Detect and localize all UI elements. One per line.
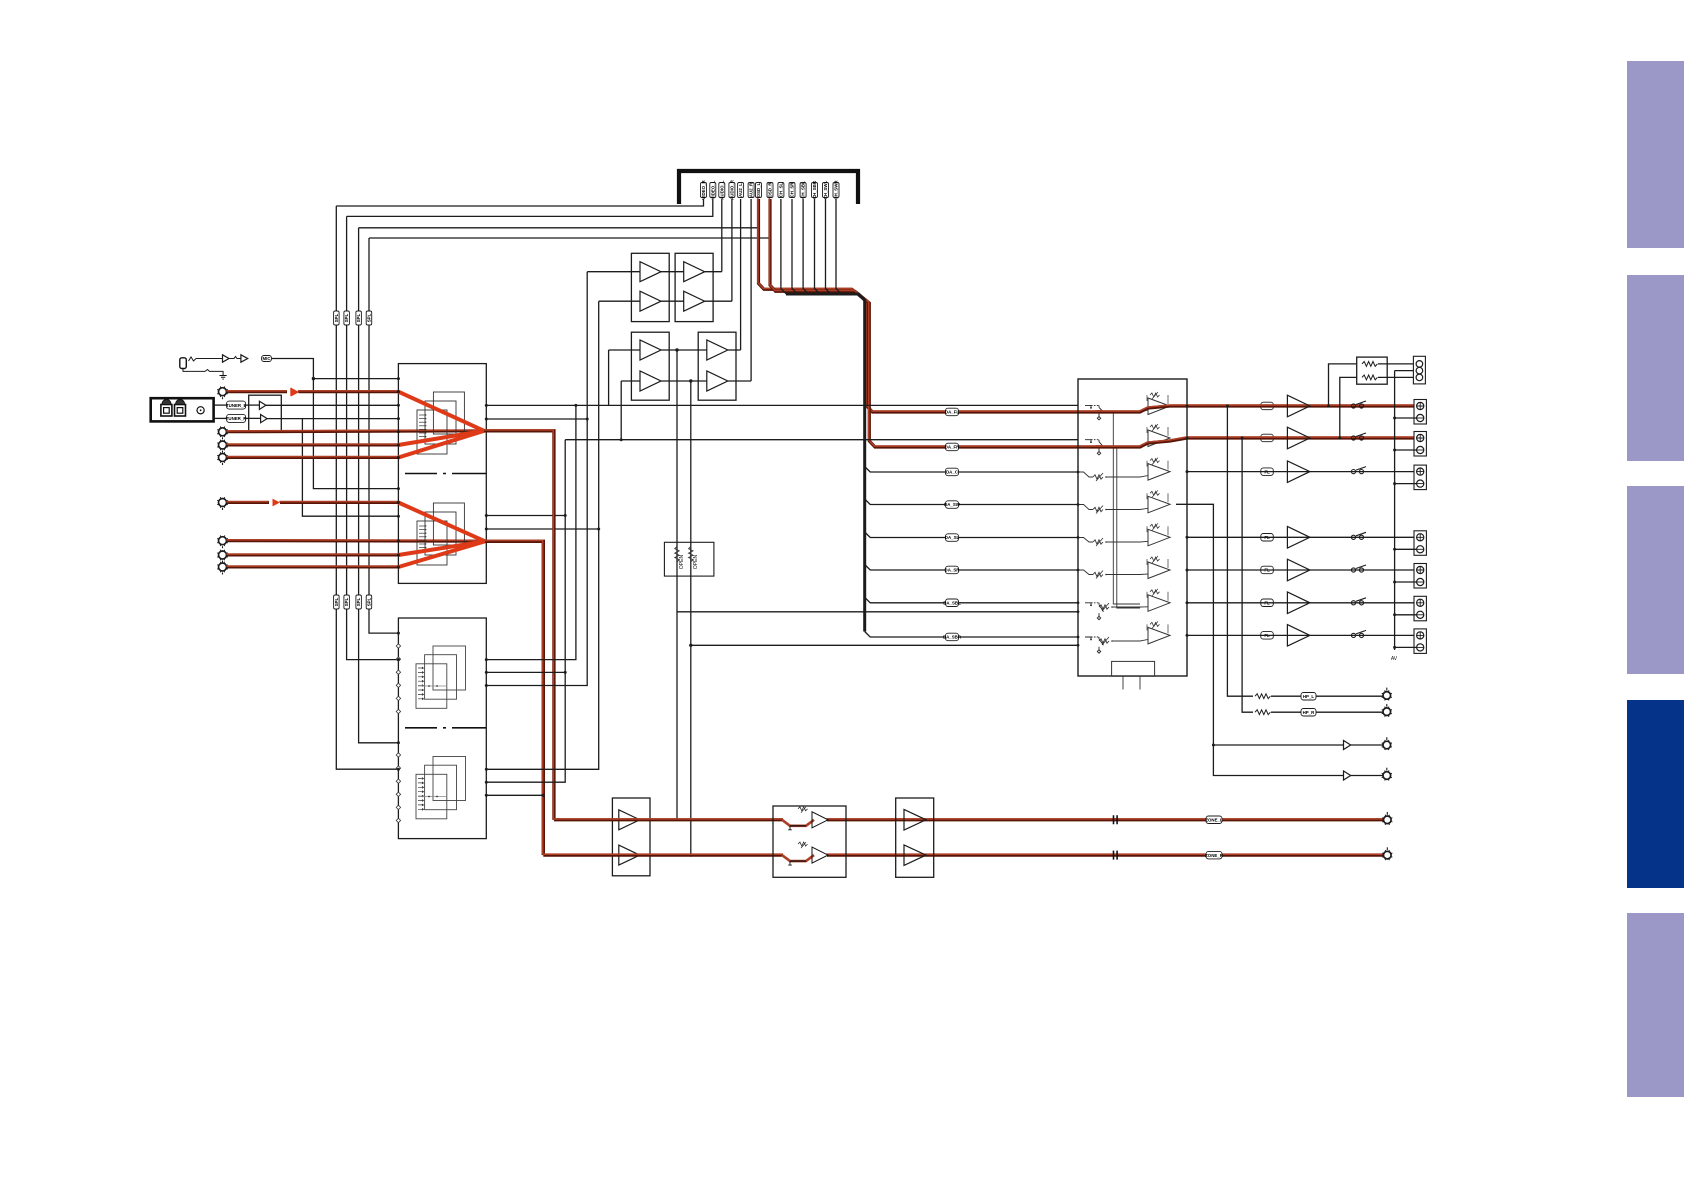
- volume input step y472: [1078, 472, 1093, 477]
- volume ch8 opamp: [1147, 621, 1170, 644]
- wire volume FR red: [1089, 437, 1187, 447]
- zone buffer 2: [619, 845, 640, 865]
- IC2 divider: [405, 727, 486, 729]
- svg-text:ZONE_L: ZONE_L: [1205, 818, 1223, 823]
- connector zone R: [1382, 847, 1392, 860]
- wire output row 2: [1186, 436, 1414, 440]
- wire IC2 out 672: [486, 671, 565, 673]
- connector AV2 audio: [217, 427, 228, 441]
- svg-text:OSD_R: OSD_R: [768, 182, 773, 198]
- IC1 pin y488: [397, 487, 400, 490]
- speaker relay 2: [1351, 433, 1366, 440]
- net label DA_SR: [945, 566, 961, 574]
- wire channel feed y570: [865, 565, 1078, 571]
- IC2 out pin y782: [485, 781, 488, 784]
- wire zone2 run: [543, 853, 783, 857]
- zone out buffer 2: [904, 845, 926, 866]
- wire channel feed SBR: [865, 632, 1078, 638]
- dsp core 1 midline: [418, 685, 446, 687]
- wire C2 in: [621, 380, 640, 382]
- junction zone branch 2: [689, 644, 692, 647]
- wire output row 4: [1187, 536, 1414, 538]
- svg-text:OPEN: OPEN: [693, 555, 699, 570]
- speaker terminal pair 6: [1414, 596, 1426, 621]
- volume ch3 link: [1106, 476, 1148, 477]
- volume ch4 fader: [1093, 506, 1107, 514]
- mic buffer 1: [223, 355, 230, 362]
- svg-text:SPL: SPL: [334, 313, 339, 322]
- IC1 input selector: [398, 364, 486, 584]
- svg-text:VIDEO_L: VIDEO_L: [710, 180, 715, 199]
- speaker terminal pair 7: [1414, 629, 1426, 654]
- volume pin y570: [1077, 569, 1080, 572]
- junction riser d: [597, 528, 600, 531]
- junction FRd: [485, 418, 488, 421]
- IC2 in pin y769: [397, 768, 400, 771]
- wire C1-D1: [661, 349, 707, 351]
- red fan group1 c: [398, 431, 484, 458]
- wire rec mid: [1395, 370, 1416, 372]
- wire hp R drop: [1242, 438, 1253, 712]
- wire AV5 in: [226, 500, 269, 504]
- junction mic node: [312, 377, 315, 380]
- wire digital net vertical: [781, 199, 787, 294]
- dsp core 2 pins: [418, 778, 424, 811]
- row label 3: [1261, 468, 1274, 476]
- IC1 divider: [405, 473, 486, 475]
- wire zone feed 2: [690, 381, 692, 855]
- svg-text:SPL: SPL: [356, 313, 361, 322]
- wire mic interstage: [229, 357, 241, 359]
- power amp 4: [1287, 527, 1310, 549]
- volume ch7 switch: [1085, 603, 1104, 620]
- mic buffer 2: [241, 355, 248, 362]
- wire AV8 in: [226, 565, 398, 569]
- red fan group2: [398, 503, 485, 542]
- wire net OSD_R branch: [369, 237, 770, 239]
- side tab 2: [1627, 275, 1684, 461]
- wire OSD_L red vertical: [758, 198, 1090, 412]
- net label CH_SR: [789, 182, 795, 198]
- wire net VIDEO_L vertical: [347, 199, 713, 216]
- bus label upper 2: [344, 311, 350, 325]
- speaker terminal pair 3: [1414, 465, 1426, 490]
- wire digital net vertical: [826, 199, 832, 294]
- junction zone tap 1: [675, 348, 678, 351]
- IC2 in pin y742: [397, 741, 400, 744]
- junction sw drop: [1212, 744, 1215, 747]
- volume ch6 link: [1106, 573, 1148, 576]
- dsp core 1 mid: [425, 655, 457, 700]
- svg-text:OSD_L: OSD_L: [756, 182, 761, 197]
- speaker relay 3: [1351, 467, 1366, 474]
- wire mic to group2: [313, 379, 398, 489]
- wire AV3 in: [226, 443, 398, 447]
- IC1 pin y457: [397, 456, 400, 459]
- power amp 3: [1287, 461, 1310, 483]
- red fan group1 b: [398, 431, 484, 445]
- wire C2-D2: [661, 380, 707, 382]
- net label MIC: [262, 356, 272, 362]
- wire output row 1: [1186, 404, 1414, 408]
- buffer B1: [684, 262, 705, 282]
- volume ch7 link: [1112, 606, 1148, 608]
- row label 1: [1261, 402, 1274, 410]
- volume pin y602: [1077, 601, 1080, 604]
- resistor OPEN 2: [689, 547, 693, 562]
- selector A stack outer: [433, 392, 464, 434]
- svg-text:AU2_L: AU2_L: [738, 183, 743, 197]
- IC2 out pin y685: [485, 684, 488, 687]
- wire hp R c: [1316, 711, 1383, 713]
- wire riser d: [486, 301, 598, 769]
- volume mute stubs: [1123, 676, 1140, 689]
- svg-text:DA_FL: DA_FL: [945, 410, 959, 415]
- net label AUDIO_R: [729, 179, 735, 200]
- wire net OSD_L branch: [359, 227, 759, 229]
- net label DA_C: [946, 468, 959, 476]
- output pin 6: [1186, 601, 1189, 604]
- IC1 pin y445: [397, 444, 400, 447]
- connector phones L: [1382, 688, 1392, 701]
- zone volume block: [773, 806, 846, 877]
- wire net VIDEO_R vertical: [336, 199, 703, 206]
- svg-text:AUDIO_L: AUDIO_L: [719, 180, 724, 200]
- buffer C2: [640, 371, 661, 391]
- connector phones R: [1382, 704, 1392, 717]
- line buffer SW2: [1344, 771, 1351, 780]
- buffer C1: [640, 340, 661, 360]
- IC1 pin y555: [397, 554, 400, 557]
- wire terminal return 3: [1395, 483, 1417, 485]
- wire sw drop: [1176, 504, 1344, 775]
- dsp core 2 midline: [418, 796, 446, 798]
- wire net AUDIO_R vertical: [731, 199, 733, 301]
- wire digital net vertical: [792, 199, 798, 294]
- net label TUNER_R: [226, 414, 248, 422]
- dock port 2: [175, 400, 186, 417]
- svg-text:DA_SBL: DA_SBL: [943, 601, 961, 606]
- speaker relay 5: [1351, 565, 1366, 572]
- net label VIDEO_L: [710, 180, 716, 199]
- wire IC1 out FRd: [486, 418, 587, 420]
- junction 795: [542, 794, 545, 797]
- volume input step y570: [1078, 570, 1093, 575]
- dsp core 1 outer: [433, 646, 466, 690]
- rec out resistor box: [1357, 357, 1388, 384]
- wire AV1 in: [226, 389, 287, 393]
- selector B stack front: [417, 521, 447, 565]
- speaker terminal pair 5: [1414, 564, 1426, 589]
- wire IC2 out 795: [486, 794, 543, 796]
- volume ch8 fader: [1099, 637, 1113, 645]
- speaker relay 7: [1351, 630, 1366, 637]
- selector B stack mid: [425, 512, 456, 555]
- svg-text:SPL: SPL: [344, 313, 349, 322]
- zone volume 2 attenuator: [782, 842, 828, 865]
- mic jack: [180, 358, 187, 369]
- wire selector1 out: [483, 430, 554, 820]
- zone volume 1 attenuator: [782, 807, 828, 830]
- volume pin y504: [1077, 503, 1080, 506]
- connector AV7 audio: [217, 550, 228, 564]
- zone out buffer 1: [904, 810, 926, 831]
- capacitor zone1: [1114, 815, 1118, 824]
- wire digital net vertical: [836, 199, 842, 294]
- wire left bus vertical 3: [359, 228, 399, 743]
- volume ch2 switch: [1085, 440, 1104, 455]
- wire riser e: [608, 350, 610, 405]
- bus label lower 3: [356, 595, 362, 609]
- wire speakers rail: [1394, 371, 1396, 650]
- wire AV7 in: [226, 553, 398, 557]
- wire terminal return 5: [1395, 581, 1417, 583]
- svg-text:DA_FR: DA_FR: [945, 445, 960, 450]
- volume ch3 opamp: [1147, 458, 1170, 481]
- volume ch5 fader: [1093, 538, 1107, 546]
- svg-text:CH_SWR: CH_SWR: [834, 180, 839, 200]
- buffer block C: [631, 332, 669, 400]
- rec connector block: [1413, 356, 1425, 384]
- IC2 in pin y633: [397, 632, 400, 635]
- net label CH_SL: [778, 182, 784, 197]
- buffer block D: [698, 332, 736, 400]
- wire IC1 out g2a: [486, 515, 565, 517]
- selector A stack pins: [419, 414, 426, 441]
- connector AV5 audio: [217, 497, 228, 511]
- junction FL tap: [1327, 405, 1330, 408]
- wire mic output: [272, 359, 399, 379]
- zone buffer block: [612, 798, 650, 876]
- svg-text:CH_SBL: CH_SBL: [801, 181, 806, 199]
- wire tuner L b: [245, 404, 260, 406]
- red fan group2 c: [398, 541, 485, 567]
- wire B1 out: [705, 271, 722, 273]
- wire riser b: [486, 405, 576, 659]
- volume input step y537: [1078, 538, 1093, 543]
- net label DA_FL: [945, 408, 959, 416]
- junction riser a: [564, 514, 567, 517]
- bus bracket: [679, 171, 858, 204]
- volume ch1 switch: [1085, 405, 1104, 420]
- junction FLd: [485, 404, 488, 407]
- tuner buffer L: [259, 401, 266, 409]
- svg-text:MIC: MIC: [262, 356, 271, 361]
- row label 4: [1261, 534, 1274, 542]
- wire tuner R out: [267, 418, 398, 420]
- volume ch6 fader: [1093, 571, 1107, 579]
- wire C1 in: [609, 349, 640, 351]
- volume pin y537: [1077, 536, 1080, 539]
- bus label lower 2: [344, 595, 350, 609]
- wire net AU2_R vertical: [750, 199, 752, 381]
- wire tuner R branch: [302, 419, 398, 517]
- wire sw row 2 b: [1351, 775, 1383, 777]
- svg-text:ZONE_R: ZONE_R: [1205, 853, 1224, 858]
- connector AV1 audio: [217, 386, 228, 400]
- IC1 pin y540: [397, 539, 400, 542]
- wire zone1 run: [553, 817, 783, 821]
- volume ch1 opamp: [1147, 392, 1170, 415]
- volume ch8 link: [1112, 639, 1148, 641]
- output pin 3: [1186, 470, 1189, 473]
- resistor rec R: [1362, 375, 1377, 380]
- IC1 pin y378: [397, 377, 400, 380]
- wire B2 out: [705, 300, 732, 302]
- connector AV4 audio: [217, 452, 228, 466]
- junction riser b: [574, 404, 577, 407]
- wire left bus vertical 1: [336, 206, 398, 769]
- junction rail 2: [1393, 449, 1396, 452]
- svg-text:SPL: SPL: [367, 313, 372, 322]
- svg-text:DA_SR: DA_SR: [945, 568, 961, 573]
- row label 5: [1261, 566, 1274, 574]
- volume ch7 fader: [1099, 603, 1113, 611]
- resistor rec L: [1362, 362, 1377, 367]
- wire A2 in: [599, 300, 640, 302]
- net label DA_SL: [945, 534, 960, 542]
- wire tuner L: [214, 404, 228, 406]
- wire IC1 out FLd: [486, 404, 1078, 406]
- wire D1 out: [728, 349, 741, 351]
- wire AV4 in: [226, 455, 398, 459]
- wire digital net vertical: [815, 199, 821, 294]
- wire riser f: [620, 381, 622, 440]
- junction g2b: [485, 528, 488, 531]
- junction FR tap: [1338, 437, 1341, 440]
- IC2 DSP: [398, 618, 486, 839]
- volume pin y472: [1077, 471, 1080, 474]
- speaker terminal pair 2: [1414, 432, 1426, 457]
- red fan group1: [398, 392, 484, 431]
- speaker relay 1: [1351, 401, 1366, 408]
- svg-text:OPEN: OPEN: [679, 555, 685, 570]
- wire zone1 run b: [826, 817, 1383, 821]
- junction 672: [564, 671, 567, 674]
- dock connector block: [151, 398, 214, 421]
- wire riser a: [486, 440, 565, 783]
- open resistor box: [664, 542, 714, 576]
- power amp 2: [1287, 427, 1310, 449]
- net label HP_R: [1301, 709, 1316, 717]
- volume pin y645: [1077, 644, 1080, 647]
- volume ch7 opamp: [1147, 589, 1170, 612]
- resistor hp L: [1255, 694, 1270, 699]
- junction g2a: [485, 514, 488, 517]
- wire output row 7: [1187, 634, 1414, 636]
- IC1 pin y502: [397, 501, 400, 504]
- signal arrow AV5 fill: [273, 499, 281, 507]
- IC1 pin y431: [397, 430, 400, 433]
- svg-text:DA_SL: DA_SL: [945, 535, 960, 540]
- IC2 left pins upper: [396, 644, 400, 714]
- junction riser c: [586, 418, 589, 421]
- volume pin y637: [1077, 636, 1080, 639]
- wire hp L drop: [1227, 406, 1253, 696]
- svg-text:AUDIO_R: AUDIO_R: [730, 179, 735, 200]
- bus label upper 3: [356, 311, 362, 325]
- svg-text:TUNER_L: TUNER_L: [226, 403, 247, 408]
- net label AUDIO_L: [719, 180, 725, 200]
- svg-text:CH_SL: CH_SL: [779, 182, 784, 197]
- bus label upper 4: [366, 311, 372, 325]
- buffer D2: [707, 371, 728, 391]
- selector B stack outer: [433, 503, 464, 545]
- buffer A2: [640, 291, 661, 311]
- junction rail 7: [1393, 646, 1396, 649]
- IC1 pin y418: [397, 417, 400, 420]
- svg-text:AV: AV: [1391, 656, 1398, 662]
- side tab 1: [1627, 61, 1684, 248]
- svg-text:DA_C: DA_C: [946, 470, 959, 475]
- wire selector2 out: [484, 540, 543, 855]
- output pin 4: [1186, 536, 1189, 539]
- wire D2 out: [728, 380, 751, 382]
- connector AV8 audio: [217, 562, 228, 576]
- wire hp L b: [1271, 695, 1301, 697]
- volume ch1 link: [1107, 410, 1148, 412]
- volume ch8 switch: [1085, 637, 1104, 653]
- volume ch4 opamp: [1147, 490, 1170, 513]
- wire IC1 out g2b: [486, 528, 598, 530]
- volume ch4 link: [1106, 508, 1148, 509]
- net label CH_SBL: [800, 181, 806, 199]
- net label ZONE_R: [1205, 851, 1224, 859]
- wire crossbar 438: [565, 439, 1078, 441]
- net label OSD_L: [756, 182, 762, 197]
- wire channel feed y537: [865, 532, 1078, 538]
- volume pin y611: [1077, 610, 1080, 613]
- output pin 1: [1186, 405, 1189, 408]
- dsp core 1 front: [416, 664, 447, 709]
- speaker relay 6: [1351, 598, 1366, 605]
- net label DA_SW: [944, 501, 961, 509]
- wire FR tap: [1340, 377, 1357, 438]
- speaker relay 4: [1351, 532, 1366, 539]
- wire output row 5: [1187, 569, 1414, 571]
- dock port 1: [161, 400, 172, 417]
- net label DA_FR: [945, 443, 960, 451]
- wire left bus vertical 2: [347, 216, 399, 659]
- connector AV6 audio: [217, 535, 228, 549]
- selector B stack pins: [419, 525, 426, 552]
- row label 7: [1261, 632, 1274, 640]
- svg-text:SPL: SPL: [344, 597, 349, 606]
- dsp core 2 front: [416, 774, 447, 819]
- net label AU2_L: [738, 183, 744, 198]
- IC2 left pins lower: [396, 753, 400, 823]
- junction rail 5: [1393, 581, 1396, 584]
- dsp core 2 outer: [433, 757, 466, 801]
- net label CH_SWR: [833, 180, 839, 200]
- wire output row 6: [1187, 602, 1414, 604]
- wire tuner R: [214, 417, 228, 419]
- wire tuner R b: [245, 417, 261, 419]
- wire terminal return 4: [1395, 548, 1417, 550]
- power amp 1: [1287, 395, 1310, 417]
- net label CH_SBR: [812, 180, 818, 199]
- IC volume control U2: [1078, 379, 1187, 676]
- svg-text:SPL: SPL: [356, 597, 361, 606]
- wire terminal return 1: [1395, 417, 1417, 419]
- junction zone2 join: [689, 854, 692, 857]
- zone out buffer block: [896, 798, 934, 877]
- row label 2: [1261, 434, 1274, 442]
- wire zone feed 1: [676, 350, 678, 820]
- wire net AU2_L vertical: [740, 199, 742, 350]
- junction hp R: [1241, 437, 1244, 440]
- wire terminal return 6: [1395, 614, 1417, 616]
